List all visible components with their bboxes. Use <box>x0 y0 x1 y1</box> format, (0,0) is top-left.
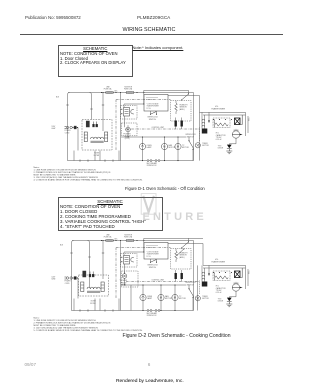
svg-text:INTERLOCK: INTERLOCK <box>147 165 158 167</box>
S1 tick neutral marker on left branch <box>66 104 68 106</box>
S1 power relay dashed enclosure <box>122 123 138 136</box>
S2 HV transformer box <box>213 271 230 281</box>
S1 tick marker on right branch <box>90 108 92 110</box>
svg-text:(ABS.): (ABS.) <box>180 256 185 259</box>
header: publication number <box>25 15 81 20</box>
S1 HV transformer primary <box>202 112 205 128</box>
S1 wire HV arrow drop <box>208 112 210 120</box>
S1 noise filter choke left winding <box>84 132 87 142</box>
S2 wire magnetron to diode <box>229 291 236 297</box>
S2 noise filter choke left winding <box>81 282 84 292</box>
S2 enclosure bottom-right box <box>100 299 119 311</box>
S2 timer motor <box>195 296 200 301</box>
S1 wire HV top <box>200 112 246 136</box>
S2 secondary interlock connectors <box>147 310 160 312</box>
S1 noise filter coil <box>91 137 104 139</box>
svg-text:MONITOR: MONITOR <box>125 234 133 236</box>
S1 junction dots on top bus <box>101 92 102 93</box>
svg-text:60HZ: 60HZ <box>52 279 56 281</box>
S1 wire bottom bus <box>68 160 194 162</box>
svg-text:P.C.B.: P.C.B. <box>147 108 152 110</box>
S1 wire left branch of supply loop <box>68 93 70 161</box>
svg-text:SWITCH: SWITCH <box>149 119 157 121</box>
S1 control unit boundary dash-dot <box>116 100 200 150</box>
svg-text:SEC.: SEC. <box>248 117 250 121</box>
S2 control board inner marks <box>146 246 158 248</box>
S1 wire HV left bus <box>168 96 200 161</box>
S2 fan motor <box>158 294 164 300</box>
S2 relay RY coil <box>124 256 130 265</box>
header: page title <box>123 27 176 33</box>
S1 HV diode <box>227 145 232 149</box>
svg-text:POWER: POWER <box>65 281 72 283</box>
S2 humidity sensor dashed box <box>171 249 192 270</box>
S2 magnetron <box>232 284 239 291</box>
S1 wire power cord to junction <box>76 128 78 151</box>
S1 wire magnetron to diode <box>229 138 236 144</box>
svg-text:CONTROL UNIT: CONTROL UNIT <box>152 127 165 129</box>
svg-text:FILTER: FILTER <box>94 155 100 157</box>
svg-text:MOTOR: MOTOR <box>182 147 189 149</box>
svg-text:LAMP: LAMP <box>147 146 153 149</box>
watermark ENTURE letters <box>143 211 207 223</box>
S1 noise filter capacitors <box>86 121 97 127</box>
S2 tick marker on right branch <box>88 256 90 258</box>
S2 wire right bus drop <box>193 241 195 311</box>
S2 HV transformer secondary resistor <box>215 276 228 279</box>
S2 connector bars <box>175 273 177 279</box>
S1 oven lamp <box>139 143 145 149</box>
S2 tick neutral marker on left branch <box>70 252 72 254</box>
watermark V logo <box>138 191 268 227</box>
S2 wire right branch of supply loop <box>88 241 90 288</box>
S2 oven lamp <box>140 294 146 300</box>
svg-text:60HZ: 60HZ <box>52 128 56 130</box>
svg-text:DIODE: DIODE <box>218 148 224 150</box>
svg-text:P.C.B.: P.C.B. <box>147 256 152 258</box>
svg-text:SWITCH: SWITCH <box>149 267 157 269</box>
svg-text:LINE: LINE <box>106 86 110 88</box>
note: indicates component <box>133 45 184 50</box>
S1 control board box <box>144 95 168 112</box>
S1 fuse F1 line fuse <box>106 91 114 93</box>
S1 wire top supply bus <box>68 92 194 94</box>
S1 wire triac stubs <box>127 125 129 137</box>
S2 wire HV inner <box>203 267 246 269</box>
S2 HV transformer primary <box>202 265 205 281</box>
S2 fuse F2 monitor fuse <box>126 239 134 241</box>
svg-text:SWITCH: SWITCH <box>187 136 195 138</box>
S2 wire HV left bus <box>168 244 203 311</box>
svg-text:0.91 uF: 0.91 uF <box>216 139 222 141</box>
S1 terminal ticks on bottom boxes <box>80 160 113 162</box>
S2 wire lamp box top <box>121 284 186 286</box>
svg-text:MOTOR: MOTOR <box>202 145 209 147</box>
S2 junction dots on top bus <box>101 240 102 241</box>
svg-text:BLK: BLK <box>56 97 60 99</box>
S1 wire lamp box top <box>121 136 186 138</box>
S1 junction dots lamp box <box>142 136 143 137</box>
S1 enclosure bottom-right box <box>100 151 119 161</box>
svg-text:M: M <box>174 296 176 300</box>
S2 noise filter coil <box>87 287 100 289</box>
footer date <box>25 362 37 367</box>
svg-text:MONITOR: MONITOR <box>125 86 133 88</box>
figure 2 caption <box>123 333 231 339</box>
svg-text:TRANSFORMER: TRANSFORMER <box>211 107 226 110</box>
S1 timer motor <box>195 143 200 148</box>
svg-text:LINE: LINE <box>106 234 110 236</box>
S1 wire drop to noise filter <box>102 93 104 132</box>
S2 wire power cord to junction <box>76 278 78 299</box>
S1 control board inner marks <box>146 98 158 100</box>
svg-text:(ABS.): (ABS.) <box>180 108 185 111</box>
svg-text:CORD: CORD <box>65 132 71 134</box>
S2 wire relay drops <box>121 241 125 311</box>
S1 wire relay drops <box>121 93 125 161</box>
S2 wire bottom bus <box>72 310 194 312</box>
svg-text:POWER: POWER <box>65 130 72 132</box>
S1 fuse F2 monitor fuse <box>126 91 134 93</box>
S1 humidity sensor dashed box <box>171 101 192 122</box>
footer rendered-by <box>116 379 184 384</box>
S1 noise filter dashed enclosure <box>82 120 112 151</box>
S1 relay RY coil <box>124 108 130 117</box>
S2 turntable motor <box>172 294 178 300</box>
S1 wire bus into board <box>124 93 144 105</box>
S2 wire HV arrow drop <box>208 265 210 273</box>
S2 junction dots lamp box <box>142 284 143 285</box>
svg-text:*LOW VOLTAGE: *LOW VOLTAGE <box>147 251 159 254</box>
svg-text:0.91 uF: 0.91 uF <box>216 292 222 294</box>
S2 wire triac stubs <box>124 272 126 285</box>
svg-text:SWITCH: SWITCH <box>187 284 195 286</box>
S1 wire lamp verticals <box>143 137 179 161</box>
S1 HV transformer coil bumps <box>213 119 216 127</box>
S2 primary interlock switch <box>189 289 194 297</box>
svg-text:INTERLOCK: INTERLOCK <box>147 315 158 317</box>
S1 door sensing switch <box>151 111 157 114</box>
S2 power relay dashed enclosure <box>122 271 139 287</box>
S2 HV fuse crossed box <box>235 271 241 278</box>
svg-text:CONTROL UNIT: CONTROL UNIT <box>152 280 165 282</box>
S1 enclosure bottom-left box <box>74 151 95 161</box>
S1 secondary interlock connectors <box>147 160 160 162</box>
S1 noise filter right winding <box>105 132 108 142</box>
svg-text:SEC.: SEC. <box>248 270 250 274</box>
S1 wire right branch of supply loop <box>90 93 92 120</box>
svg-text:MOTOR: MOTOR <box>169 147 176 149</box>
S2 wire HV top <box>203 265 246 289</box>
header rule <box>20 33 283 36</box>
S2 wire left branch of supply loop <box>72 241 74 311</box>
S2 HV transformer coil bumps <box>213 272 216 280</box>
S2 ground symbol <box>226 304 232 307</box>
svg-text:MOTOR: MOTOR <box>179 298 186 300</box>
S2 wire lamp box left edge <box>130 285 132 311</box>
S1 power cord plug <box>65 126 77 129</box>
svg-text:Notes:: Notes: <box>34 317 40 320</box>
S1 magnetron <box>232 131 239 138</box>
S2 noise filter capacitors <box>83 271 94 277</box>
header: model number <box>137 15 170 20</box>
svg-text:M: M <box>160 296 162 300</box>
S2 wire lamp verticals <box>143 285 175 311</box>
S1 connector bars <box>175 121 177 127</box>
S1 wire HV inner <box>203 114 246 116</box>
S1 wire right bus drop <box>193 93 195 161</box>
S1 relay dashed enclosure <box>121 106 138 120</box>
S1 wire upper feed line <box>144 90 189 94</box>
S2 door sensing switch <box>151 259 157 262</box>
S1 HV transformer secondary resistor <box>215 123 228 126</box>
svg-text:TRANSFORMER: TRANSFORMER <box>211 260 226 263</box>
S1 junction dots HV row <box>213 119 214 120</box>
S2 control board box <box>144 243 168 260</box>
svg-text:5. CONDITION BOARD SENSOR FOR: 5. CONDITION BOARD SENSOR FOR OVEN AND T… <box>34 329 143 332</box>
S2 HV diode <box>227 298 232 302</box>
svg-text:CORD: CORD <box>65 283 71 285</box>
svg-text:M: M <box>177 145 179 149</box>
svg-text:Notes:: Notes: <box>34 166 40 169</box>
S1 primary interlock switch <box>189 141 194 149</box>
S1 cook switch arm <box>182 94 189 100</box>
svg-text:M: M <box>163 145 165 149</box>
S2 start switch arm in sensor box <box>177 249 184 255</box>
S2 wire drop to noise filter <box>102 241 104 280</box>
S2 relay contact <box>131 257 134 262</box>
S2 noise filter right winding <box>101 282 104 292</box>
S1 triac circle <box>126 127 131 132</box>
svg-text:BLK: BLK <box>60 245 64 247</box>
schematic note box 2 <box>58 197 163 232</box>
S2 enclosure bottom-left box <box>74 299 95 311</box>
svg-text:120V: 120V <box>52 126 57 128</box>
S1 HV fuse crossed box <box>235 118 241 125</box>
S2 wire upper feed line <box>144 238 203 242</box>
S2 cook switch arm <box>182 242 189 248</box>
S2 noise filter dashed enclosure <box>79 275 109 296</box>
svg-text:4. CONDITION BOARD SENSOR FOR: 4. CONDITION BOARD SENSOR FOR OVEN AND T… <box>34 178 143 181</box>
S1 HV transformer box <box>213 118 230 128</box>
S2 wire top supply bus <box>72 240 194 242</box>
S2 control unit boundary dash-dot <box>116 248 200 298</box>
S2 power cord plug <box>65 277 77 280</box>
S1 turntable motor <box>175 143 181 149</box>
svg-text:120V: 120V <box>52 276 57 278</box>
svg-text:DIODE: DIODE <box>218 301 224 303</box>
schematic note box 1 <box>58 45 134 78</box>
svg-text:MOTOR: MOTOR <box>165 298 172 300</box>
S1 relay contact <box>131 109 134 114</box>
svg-text:MOTOR: MOTOR <box>202 298 209 300</box>
S2 wire bus into board <box>124 241 144 253</box>
S1 fan motor <box>161 143 167 149</box>
S1 humidity sensor resistor <box>175 103 178 111</box>
S2 fuse F1 line fuse <box>106 239 114 241</box>
figure 1 caption <box>125 186 205 191</box>
S2 humidity sensor resistor <box>175 251 178 259</box>
S2 terminal ticks on bottom boxes <box>80 309 113 311</box>
svg-text:*LOW VOLTAGE: *LOW VOLTAGE <box>147 103 159 106</box>
S2 triac circle <box>122 274 127 279</box>
S1 ground symbol <box>226 151 232 154</box>
footer page number <box>148 362 151 367</box>
S2 relay dashed enclosure <box>121 254 138 268</box>
svg-text:(RY2): (RY2) <box>125 138 130 140</box>
svg-text:LAMP: LAMP <box>147 297 153 300</box>
svg-text:FILTER: FILTER <box>90 303 96 305</box>
S2 junction dots HV row <box>213 272 214 273</box>
